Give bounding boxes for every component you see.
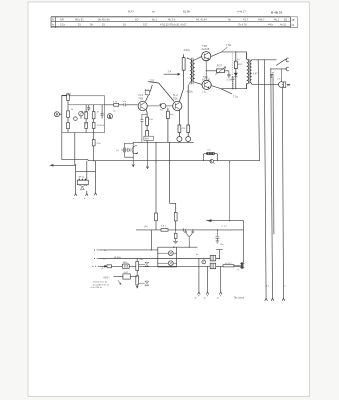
svg-text:L.S: L.S [277, 79, 281, 81]
svg-text:44. 4L.44: 44. 4L.44 [196, 18, 207, 22]
svg-text:1: 1 [109, 114, 111, 118]
svg-text:4.5V⎓: 4.5V⎓ [103, 276, 110, 279]
svg-text:90.b.91: 90.b.91 [75, 18, 84, 22]
svg-text:4.47: 4.47 [253, 74, 258, 76]
svg-text:4.52v: 4.52v [184, 48, 191, 52]
svg-text:7.1a: 7.1a [233, 96, 238, 98]
svg-text:44.b: 44.b [268, 23, 274, 27]
svg-text:4x 517: 4x 517 [225, 263, 232, 265]
svg-text:2200uF: 2200uF [97, 125, 105, 127]
svg-text:B 4B 22: B 4B 22 [271, 10, 283, 14]
svg-text:4B 4Bx: 4B 4Bx [114, 257, 122, 259]
svg-text:TS5: TS5 [138, 96, 143, 100]
svg-text:4.8.1: 4.8.1 [161, 226, 167, 228]
svg-text:AF 4x: AF 4x [79, 175, 86, 178]
svg-text:bO: bO [135, 18, 138, 22]
svg-text:4.52v: 4.52v [187, 90, 194, 94]
svg-text:4.91.52 47b.b.81 4.b17: 4.91.52 47b.b.81 4.b17 [160, 23, 187, 27]
svg-text:4x.xx/4B 4.5V 4x: 4x.xx/4B 4.5V 4x [93, 284, 110, 286]
svg-text:bb.1: bb.1 [152, 18, 158, 22]
svg-text:7.52: 7.52 [150, 81, 155, 83]
svg-text:4b.3.b: 4b.3.b [168, 18, 176, 22]
svg-text:517: 517 [143, 23, 148, 27]
svg-text:(4x): (4x) [144, 226, 148, 228]
svg-text:The circuit: The circuit [234, 297, 245, 300]
svg-text:B2 Bb: B2 Bb [183, 10, 191, 14]
svg-text:12.b: 12.b [60, 23, 66, 27]
svg-text:B2: B2 [284, 18, 288, 22]
svg-text:4B: 4B [292, 19, 295, 22]
svg-text:C 4.7: C 4.7 [222, 226, 228, 228]
svg-text:TS6: TS6 [173, 96, 178, 100]
svg-text:NR: NR [60, 18, 64, 22]
svg-text:4x17: 4x17 [124, 272, 130, 274]
svg-text:4.4x 47B 4x: 4.4x 47B 4x [91, 287, 103, 289]
svg-text:7b 4 7b: 7b 4 7b [238, 23, 247, 27]
svg-text:R.57: R.57 [217, 65, 223, 67]
svg-text:A 4b 27: A 4b 27 [237, 10, 246, 14]
svg-text:5K: 5K [52, 20, 55, 22]
svg-text:4.5x/4x 4.7x 4L: 4.5x/4x 4.7x 4L [93, 281, 109, 283]
svg-text:7.4: 7.4 [168, 69, 172, 73]
svg-text:AC128: AC128 [201, 47, 209, 51]
svg-text:4x.51: 4x.51 [280, 23, 287, 27]
svg-text:4L47: 4L47 [128, 10, 134, 14]
svg-text:7.5a: 7.5a [226, 43, 232, 47]
svg-text:9b.41b 9b: 9b.41b 9b [98, 18, 110, 22]
svg-text:44b.7: 44b.7 [258, 18, 265, 22]
svg-text:(+): (+) [116, 150, 119, 152]
svg-text:2.47n: 2.47n [227, 79, 233, 81]
svg-text:AC128: AC128 [202, 78, 210, 82]
svg-text:4b.2: 4b.2 [274, 18, 280, 22]
svg-text:41.7: 41.7 [243, 18, 249, 22]
